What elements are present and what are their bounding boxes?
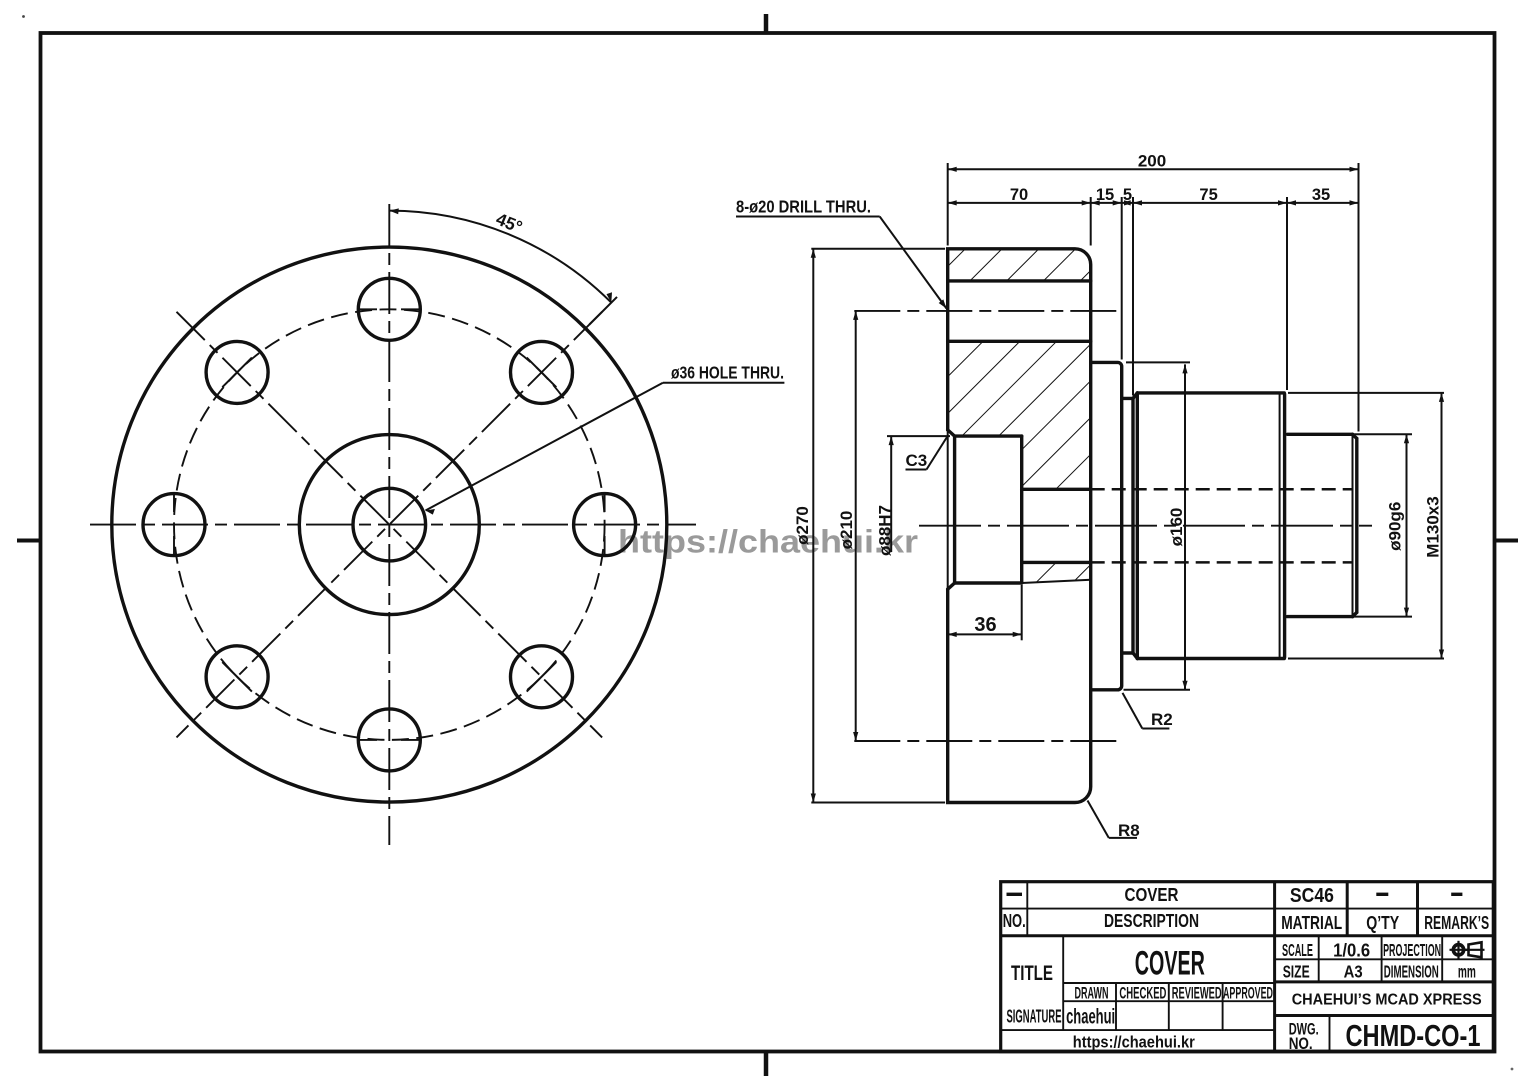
tb col PROJECTION [1381,936,1383,982]
svg-text:35: 35 [1312,186,1330,204]
svg-text:MATRIAL: MATRIAL [1281,912,1342,933]
bolt hole NE [511,341,573,403]
bolt hole SW [206,646,268,708]
label 8-o20 underline [736,216,880,218]
hatch mid region [948,341,1091,489]
svg-text:https://chaehui.kr: https://chaehui.kr [1073,1032,1195,1051]
tb row1 line [1001,908,1494,910]
left face thin segment at bore mouth [947,430,949,589]
svg-text:https://chaehui.kr: https://chaehui.kr [618,524,918,560]
thread chamfer diag top [1133,393,1137,399]
dim o90g6 line [1406,434,1408,616]
dim 200 line [948,168,1359,170]
bolt centerline upper [854,310,1120,312]
svg-text:CHMD-CO-1: CHMD-CO-1 [1346,1018,1481,1053]
45 deg extension line [589,297,617,325]
hole S short centerline [357,739,421,741]
svg-text:ø210: ø210 [837,511,856,550]
bore right edge [1020,436,1023,583]
M130 right face [1283,394,1286,657]
svg-text:A3: A3 [1344,962,1363,982]
tb col DWG [1329,1016,1331,1052]
hole NW cross tick [222,358,252,388]
svg-text:15: 15 [1096,186,1114,204]
tb col TITLE [1062,936,1064,1030]
o36 leader [426,383,663,511]
ext line E5 [1286,197,1288,390]
hatch top band [948,249,1091,281]
collar o160 outline [1091,362,1122,689]
hole NE cross tick [527,358,557,388]
tb col REMARKS [1416,882,1419,936]
45 deg dimension arc [389,211,611,303]
dash REMARKS [1451,893,1462,896]
tb row MCAD bottom [1275,1014,1494,1017]
dim chain line [948,202,1359,204]
ext line E2 [1090,197,1092,246]
tb col REVIEWED [1222,983,1224,1030]
outer circle [112,247,667,802]
svg-text:chaehui: chaehui [1066,1005,1115,1028]
border tick right [1495,539,1519,543]
bolt hole S [358,709,420,771]
bore top edge [955,434,1022,437]
o36 hidden bottom [1091,561,1353,564]
svg-text:M130x3: M130x3 [1424,496,1443,557]
svg-text:SIGNATURE: SIGNATURE [1007,1005,1062,1026]
o90 bottom edge [1287,615,1352,618]
M130 bottom edge [1137,657,1284,660]
o90 right face [1355,439,1358,613]
svg-text:Q’TY: Q’TY [1366,912,1400,933]
o90 right chamfer line [1352,434,1354,616]
hole SW cross tick [222,662,252,692]
bolt hole NW [206,341,268,403]
svg-text:36: 36 [974,614,996,636]
tb row SCALE bottom [1275,958,1494,960]
dim o160 line [1184,364,1186,689]
tb row SIGNATURE bottom [1001,1029,1275,1031]
border tick bottom [764,1052,769,1077]
bore bottom slant line [1022,580,1091,583]
tb col QTY [1346,882,1349,936]
bolt hole E [574,494,636,556]
svg-text:SIZE: SIZE [1283,962,1310,982]
svg-text:REMARK’S: REMARK’S [1424,912,1489,933]
dim 36 ext [1021,585,1023,640]
dash QTY [1376,893,1388,896]
svg-text:PROJECTION: PROJECTION [1383,940,1441,960]
flange outline [948,249,1091,803]
dim o210 line [855,311,857,741]
svg-text:CHECKED: CHECKED [1119,983,1166,1002]
svg-text:REVIEWED: REVIEWED [1172,983,1222,1002]
tb row2 line [1001,934,1494,937]
svg-text:ø36 HOLE THRU.: ø36 HOLE THRU. [671,363,784,383]
centerline vertical [388,204,390,845]
bolt hole W [143,494,205,556]
o36 bottom edge sectioned [1022,561,1091,564]
M130 top edge [1137,391,1284,394]
bolt circle (dashed) [174,309,605,740]
thread chamfer diag bottom [1133,653,1137,659]
border tick left [17,539,41,543]
bolt centerline lower [854,740,1120,742]
M130 right chamfer line [1279,394,1281,657]
drill hole top edge [948,279,1091,282]
dim o270 line [812,249,814,803]
bore chamfer diag bottom [948,583,955,589]
centerline horizontal [90,524,696,526]
centerline diagonal NW-SE [177,312,603,738]
label R2 leader [1123,693,1143,729]
dim o270 ext top [811,248,945,250]
svg-text:ø90g6: ø90g6 [1386,502,1405,551]
stray dot top-left [22,15,25,18]
o36 top edge sectioned [1022,488,1091,491]
svg-text:ø270: ø270 [793,506,812,545]
svg-text:5: 5 [1123,186,1132,204]
45 arc arrow top [389,208,399,214]
label C3 leader [927,437,948,470]
svg-text:C3: C3 [906,451,928,470]
hatch small lower region [1022,562,1091,583]
o36 leader arrow [426,509,435,515]
groove bottom edge [1122,651,1133,654]
svg-text:APPROVED: APPROVED [1223,983,1273,1002]
svg-text:COVER: COVER [1125,884,1179,905]
ext line E1 [947,163,949,246]
tb row DRAWN bottom [1063,1000,1274,1002]
hole W short centerline [173,492,175,556]
dim o88H7 line [890,436,892,552]
dash cell 1 [1007,893,1023,896]
svg-text:8-ø20 DRILL THRU.: 8-ø20 DRILL THRU. [736,197,871,217]
tb row COVER bottom [1063,982,1274,984]
groove right wall [1131,398,1134,653]
dim o88H7 ext [887,435,950,437]
label R8 leader [1088,801,1109,838]
svg-text:75: 75 [1199,186,1217,204]
border tick top [764,14,769,33]
svg-text:COVER: COVER [1135,944,1205,982]
o90 chamfer diag bottom [1353,612,1357,616]
tb col DRAWN [1115,983,1117,1030]
groove top edge [1122,397,1133,400]
dim o90g6 ext top [1290,433,1412,435]
bore bottom edge [955,581,1022,584]
o36 hidden top [1091,488,1353,491]
o90 chamfer diag top [1353,434,1357,438]
center hole o36 [353,488,426,561]
label R2 underline [1142,728,1169,730]
projection symbol circle [1450,941,1485,959]
svg-text:DRAWN: DRAWN [1075,983,1109,1002]
o90 top edge [1287,433,1352,436]
svg-text:DESCRIPTION: DESCRIPTION [1104,910,1199,931]
tb col NO [1026,882,1028,936]
bore chamfer line [953,436,956,583]
hole SE cross tick [527,662,557,692]
svg-text:NO.: NO. [1289,1035,1313,1053]
dim o270 ext bottom [811,802,945,804]
svg-text:NO.: NO. [1003,910,1026,931]
bore circle o88 [299,435,479,615]
ext line E6 [1358,163,1360,432]
dim o160 ext bottom [1124,689,1191,691]
label R8 underline [1109,837,1137,839]
svg-text:200: 200 [1138,152,1166,171]
svg-text:R2: R2 [1151,710,1173,729]
bore chamfer diag top [948,430,955,436]
hole E short centerline [604,492,606,556]
centerline diagonal NE-SW [177,312,603,738]
side centerline [919,525,1372,527]
label C3 underline [906,469,927,471]
tb col PROJ symbol [1441,936,1443,982]
svg-text:ø160: ø160 [1167,508,1186,547]
svg-text:mm: mm [1458,962,1476,982]
svg-text:DIMENSION: DIMENSION [1384,962,1439,982]
45 arc arrow end [607,292,613,302]
o36 label underline [663,382,785,384]
dim M130x3 line [1441,393,1443,659]
ext line E4 [1132,197,1134,396]
dim o160 ext top [1126,361,1190,363]
tb row SIZE bottom [1275,980,1494,983]
ext line E3 [1121,197,1123,360]
dim M130x3 ext top [1288,392,1444,394]
bolt hole SE [511,646,573,708]
svg-text:70: 70 [1010,186,1028,204]
tb outer [1001,882,1494,1052]
tb col CHECKED [1168,983,1170,1030]
dim o90g6 ext bottom [1290,616,1412,618]
tb col main [1273,882,1276,1052]
tb col SCALE val [1318,936,1320,982]
svg-text:CHAEHUI’S MCAD XPRESS: CHAEHUI’S MCAD XPRESS [1292,992,1482,1009]
dim 36 line [948,633,1022,635]
hole N short centerline [357,308,421,310]
M130 left face [1136,393,1139,659]
dim M130x3 ext bottom [1288,658,1444,660]
svg-text:1/0.6: 1/0.6 [1333,941,1370,961]
svg-text:ø88H7: ø88H7 [876,505,895,556]
svg-text:SCALE: SCALE [1282,940,1313,960]
svg-text:SC46: SC46 [1290,885,1334,907]
stray dot bottom-right [1511,1068,1514,1071]
label 8-o20 leader [880,217,947,309]
svg-text:TITLE: TITLE [1011,962,1053,985]
drill hole bottom edge [948,340,1091,343]
bolt hole N [358,278,420,340]
